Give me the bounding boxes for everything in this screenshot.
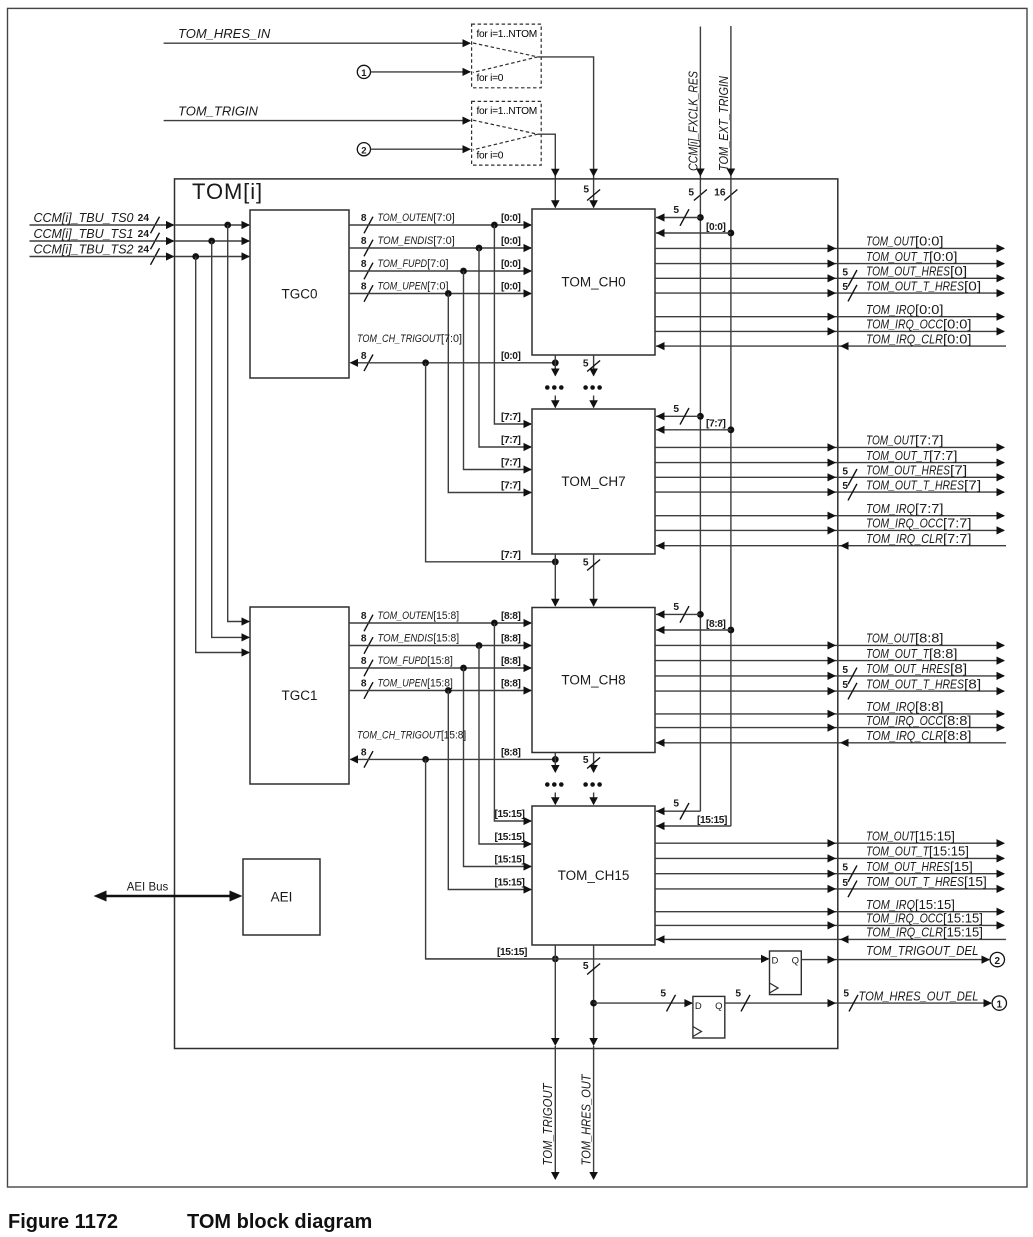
svg-text:5: 5 (583, 557, 589, 568)
wire EXT_TRIGIN feed [15:15] (656, 815, 731, 830)
svg-text:5: 5 (842, 267, 848, 278)
signal TOM_CH_TRIGOUT[7:0] (350, 333, 559, 371)
mux for i=0 / i=1..NTOM (TOM_HRES_IN) (472, 24, 542, 88)
svg-text:5: 5 (673, 799, 679, 810)
signal TOM_OUTEN[15:8] (349, 610, 532, 631)
svg-text:D: D (695, 1001, 702, 1012)
svg-text:TGC1: TGC1 (281, 688, 317, 703)
svg-text:D: D (772, 956, 779, 967)
svg-text:CCM[i]_TBU_TS1: CCM[i]_TBU_TS1 (33, 227, 133, 241)
node continuation dots CH0/CH7 (545, 385, 602, 390)
svg-text:5: 5 (842, 466, 848, 477)
svg-text:[0:0]: [0:0] (706, 222, 726, 233)
wire CCM[i]_TBU_TS0 branch to TGC1 (228, 225, 250, 626)
svg-text:[7:7]: [7:7] (501, 435, 521, 446)
svg-text:[7:7]: [7:7] (501, 481, 521, 492)
wire EXT_TRIGIN feed [0:0] (656, 222, 734, 237)
svg-text:TOM_CH8: TOM_CH8 (561, 673, 625, 688)
svg-text:[8:8]: [8:8] (501, 634, 521, 645)
svg-text:TOM_IRQ_OCC[7:7]: TOM_IRQ_OCC[7:7] (866, 516, 972, 531)
wire EXT_TRIGIN trunk inside TOM[i] (730, 176, 732, 826)
svg-text:TOM[i]: TOM[i] (192, 179, 263, 204)
svg-text:TOM_IRQ_CLR[0:0]: TOM_IRQ_CLR[0:0] (866, 331, 972, 346)
wire TOM_OUTEN[15:8] branch down (494, 623, 532, 825)
wire trigout chain CH0 to CH7 (551, 355, 600, 408)
svg-text:[7:7]: [7:7] (706, 419, 726, 430)
wire mux1 output to TOM_CH0 (x=593.6) (538, 57, 600, 208)
signal TOM_OUT[0:0] (655, 234, 1005, 253)
flip-flop FF2 (TOM_HRES_OUT_DEL) (590, 989, 725, 1038)
block TOM_CH7 (532, 409, 655, 554)
wire TOM_TRIGOUT output (x=555.3) (551, 945, 560, 1180)
signal TOM_OUT_T_HRES[8] (655, 676, 1005, 699)
wire trigout chain CH8 to CH15 (551, 753, 600, 806)
signal CCM[i]_TBU_TS1 (30, 227, 251, 250)
svg-text:5: 5 (583, 358, 589, 369)
svg-text:TOM_TRIGOUT_DEL: TOM_TRIGOUT_DEL (866, 943, 979, 958)
signal TOM_OUT_T[8:8] (655, 646, 1005, 665)
svg-text:[8:8]: [8:8] (501, 611, 521, 622)
node 1 (circle) (357, 65, 370, 79)
node continuation dots CH8/CH15 (545, 782, 602, 787)
svg-text:TOM block diagram: TOM block diagram (187, 1211, 372, 1233)
svg-text:TGC0: TGC0 (281, 287, 317, 302)
svg-text:CCM[i]_TBU_TS2: CCM[i]_TBU_TS2 (33, 242, 133, 256)
svg-text:TOM_FUPD[15:8]: TOM_FUPD[15:8] (378, 655, 453, 667)
svg-text:8: 8 (361, 236, 367, 247)
svg-text:5: 5 (673, 602, 679, 613)
svg-text:8: 8 (361, 351, 367, 362)
wire FXCLK trunk inside TOM[i] (699, 176, 701, 811)
signal TOM_OUT_T_HRES[7] (655, 477, 1005, 500)
wire circle1 to mux (371, 68, 472, 76)
signal TOM_UPEN[7:0] (349, 281, 532, 302)
flip-flop FF1 (TOM_TRIGOUT_DEL) (555, 951, 801, 995)
block TOM_CH8 (532, 608, 655, 753)
signal TOM_OUT_HRES[8] (655, 661, 1005, 684)
caption (8, 1211, 372, 1233)
block TOM_CH0 (532, 209, 655, 355)
svg-text:5: 5 (842, 863, 848, 874)
svg-text:5: 5 (842, 282, 848, 293)
svg-text:2: 2 (995, 956, 1001, 967)
signal TOM_ENDIS[15:8] (349, 633, 532, 654)
svg-text:TOM_HRES_IN: TOM_HRES_IN (178, 26, 271, 41)
wire FXCLK_RES feed [7:7] (656, 404, 704, 425)
svg-text:TOM_IRQ_CLR[8:8]: TOM_IRQ_CLR[8:8] (866, 728, 972, 743)
svg-text:8: 8 (361, 634, 367, 645)
svg-text:5: 5 (583, 961, 589, 972)
svg-text:AEI Bus: AEI Bus (127, 882, 169, 894)
wire TOM_ENDIS[15:8] branch down (479, 646, 532, 849)
signal TOM_IRQ_OCC[15:15] (655, 911, 1005, 930)
signal TOM_ENDIS[7:0] (349, 235, 532, 256)
wire TOM_UPEN[7:0] branch down (448, 294, 532, 497)
wire trigout chain CH7 to CH8 (551, 554, 600, 607)
svg-text:TOM_CH0: TOM_CH0 (561, 275, 625, 290)
svg-text:5: 5 (842, 665, 848, 676)
mux for i=0 / i=1..NTOM (TOM_TRIGIN) (472, 101, 542, 165)
svg-text:5: 5 (673, 404, 679, 415)
svg-text:TOM_OUT_T[0:0]: TOM_OUT_T[0:0] (866, 249, 958, 264)
svg-text:5: 5 (660, 989, 666, 1000)
signal TOM_OUT[8:8] (655, 631, 1005, 650)
signal TOM_IRQ[15:15] (655, 897, 1005, 916)
svg-text:TOM_IRQ[7:7]: TOM_IRQ[7:7] (866, 501, 944, 516)
signal CCM[i]_FXCLK_RES (vertical) (687, 27, 707, 201)
svg-text:TOM_IRQ_OCC[8:8]: TOM_IRQ_OCC[8:8] (866, 713, 972, 728)
svg-text:Q: Q (715, 1001, 722, 1012)
svg-text:[0:0]: [0:0] (501, 282, 521, 293)
signal TOM_OUT_T[0:0] (655, 249, 1005, 268)
svg-text:TOM_TRIGIN: TOM_TRIGIN (178, 103, 259, 118)
svg-text:for i=1..NTOM: for i=1..NTOM (477, 106, 537, 117)
svg-text:[15:15]: [15:15] (697, 815, 727, 826)
svg-text:TOM_TRIGOUT: TOM_TRIGOUT (540, 1083, 555, 1166)
svg-text:2: 2 (361, 146, 366, 157)
svg-text:AEI: AEI (271, 890, 293, 905)
signal TOM_OUT_T_HRES[0] (655, 278, 1005, 301)
signal TOM_OUT_T[15:15] (655, 844, 1005, 863)
svg-text:8: 8 (361, 747, 367, 758)
wire mux2 output to TOM_CH0 (x=555.3) (538, 134, 560, 208)
signal TOM_IRQ_CLR[15:15] (656, 925, 1006, 944)
signal TOM_IRQ_CLR[7:7] (656, 531, 1006, 550)
svg-text:[7:7]: [7:7] (501, 458, 521, 469)
svg-text:TOM_IRQ_OCC[15:15]: TOM_IRQ_OCC[15:15] (866, 911, 983, 926)
svg-text:8: 8 (361, 611, 367, 622)
signal TOM_IRQ_OCC[8:8] (655, 713, 1005, 732)
signal TOM_OUT_HRES[0] (655, 264, 1005, 287)
signal TOM_HRES_OUT_DEL (725, 988, 1007, 1011)
signal TOM_IRQ_CLR[8:8] (656, 728, 1006, 747)
signal TOM_TRIGIN (164, 103, 471, 124)
svg-text:5: 5 (843, 989, 849, 1000)
svg-text:TOM_OUT[0:0]: TOM_OUT[0:0] (866, 234, 944, 249)
signal TOM_OUT_T[7:7] (655, 448, 1005, 467)
svg-text:5: 5 (583, 184, 589, 195)
svg-text:TOM_OUT_HRES[7]: TOM_OUT_HRES[7] (866, 463, 967, 478)
svg-text:Figure 1172: Figure 1172 (8, 1211, 118, 1233)
svg-text:5: 5 (842, 878, 848, 889)
wire FXCLK_RES feed [8:8] (656, 602, 704, 623)
signal TOM_UPEN[15:8] (349, 678, 532, 699)
wire CCM[i]_TBU_TS2 branch to TGC1 (196, 257, 250, 657)
svg-text:TOM_OUT[7:7]: TOM_OUT[7:7] (866, 433, 944, 448)
svg-text:[15:15]: [15:15] (494, 832, 524, 843)
svg-text:16: 16 (714, 188, 726, 199)
svg-text:[8:8]: [8:8] (706, 619, 726, 630)
svg-text:5: 5 (583, 755, 589, 766)
svg-text:[0:0]: [0:0] (501, 259, 521, 270)
wire TOM_UPEN[15:8] branch down (448, 691, 532, 894)
svg-text:[8:8]: [8:8] (501, 679, 521, 690)
block AEI (243, 859, 320, 935)
svg-text:CCM[i]_TBU_TS0: CCM[i]_TBU_TS0 (33, 211, 133, 225)
svg-text:for i=1..NTOM: for i=1..NTOM (477, 29, 537, 40)
svg-text:CCM[i]_FXCLK_RES: CCM[i]_FXCLK_RES (687, 70, 701, 171)
svg-text:TOM_OUT_T[7:7]: TOM_OUT_T[7:7] (866, 448, 958, 463)
svg-text:24: 24 (138, 244, 150, 255)
svg-text:TOM_HRES_OUT_DEL: TOM_HRES_OUT_DEL (859, 988, 979, 1003)
signal TOM_OUT_T_HRES[15] (655, 874, 1005, 897)
svg-text:1: 1 (361, 68, 367, 79)
svg-text:5: 5 (842, 680, 848, 691)
svg-text:[8:8]: [8:8] (501, 656, 521, 667)
signal TOM_OUT_HRES[7] (655, 463, 1005, 486)
signal TOM_OUT[15:15] (655, 828, 1005, 847)
svg-text:5: 5 (688, 188, 694, 199)
svg-text:TOM_CH_TRIGOUT[7:0]: TOM_CH_TRIGOUT[7:0] (357, 333, 462, 345)
svg-text:[15:15]: [15:15] (497, 947, 527, 958)
module TOM[i] (175, 179, 838, 1049)
signal TOM_IRQ_OCC[7:7] (655, 516, 1005, 535)
svg-text:[8:8]: [8:8] (501, 747, 521, 758)
svg-text:TOM_CH7: TOM_CH7 (561, 474, 625, 489)
svg-text:TOM_ENDIS[15:8]: TOM_ENDIS[15:8] (378, 633, 460, 645)
svg-text:TOM_IRQ_CLR[15:15]: TOM_IRQ_CLR[15:15] (866, 925, 983, 940)
svg-text:TOM_OUT_T[8:8]: TOM_OUT_T[8:8] (866, 646, 958, 661)
svg-text:TOM_OUT_HRES[0]: TOM_OUT_HRES[0] (866, 264, 967, 279)
signal TOM_IRQ_OCC[0:0] (655, 317, 1005, 336)
svg-text:[0:0]: [0:0] (501, 236, 521, 247)
svg-text:TOM_OUT_T_HRES[15]: TOM_OUT_T_HRES[15] (866, 874, 987, 889)
wire EXT_TRIGIN feed [7:7] (656, 419, 734, 434)
signal TOM_FUPD[15:8] (349, 655, 532, 676)
svg-text:TOM_OUT[15:15]: TOM_OUT[15:15] (866, 828, 955, 843)
svg-text:[15:15]: [15:15] (494, 809, 524, 820)
block TGC1 (250, 607, 349, 784)
signal TOM_OUT[7:7] (655, 433, 1005, 452)
block TGC0 (250, 210, 349, 378)
signal TOM_TRIGOUT_DEL (801, 943, 1004, 967)
svg-text:TOM_OUTEN[7:0]: TOM_OUTEN[7:0] (378, 212, 455, 224)
svg-text:8: 8 (361, 679, 367, 690)
svg-text:TOM_OUT_T_HRES[8]: TOM_OUT_T_HRES[8] (866, 676, 981, 691)
wire trigout row to FF1 (426, 958, 556, 960)
svg-text:TOM_OUT_T_HRES[0]: TOM_OUT_T_HRES[0] (866, 278, 981, 293)
wire TOM_FUPD[7:0] branch down (464, 271, 533, 474)
svg-text:TOM_FUPD[7:0]: TOM_FUPD[7:0] (378, 258, 449, 270)
svg-text:Q: Q (792, 956, 799, 967)
wire EXT_TRIGIN feed [8:8] (656, 619, 734, 634)
svg-text:8: 8 (361, 656, 367, 667)
signal TOM_EXT_TRIGIN (vertical) (714, 26, 737, 201)
signal AEI Bus (94, 882, 243, 902)
wire TOM_FUPD[15:8] branch down (464, 668, 533, 871)
svg-text:TOM_CH_TRIGOUT[15:8]: TOM_CH_TRIGOUT[15:8] (357, 730, 466, 742)
svg-text:8: 8 (361, 259, 367, 270)
wire TGC0 trigout vertical + CH7 row (426, 363, 559, 565)
svg-text:TOM_UPEN[15:8]: TOM_UPEN[15:8] (378, 678, 453, 690)
signal CCM[i]_TBU_TS0 (30, 211, 251, 234)
svg-text:TOM_OUT_T[15:15]: TOM_OUT_T[15:15] (866, 844, 969, 859)
svg-text:1: 1 (997, 999, 1003, 1010)
wire TGC1 trigout vertical + CH15 row (426, 759, 559, 962)
svg-text:8: 8 (361, 213, 367, 224)
wire TOM_ENDIS[7:0] branch down (479, 248, 532, 451)
svg-text:5: 5 (673, 205, 679, 216)
svg-text:TOM_UPEN[7:0]: TOM_UPEN[7:0] (378, 281, 449, 293)
block TOM_CH15 (532, 806, 655, 945)
signal TOM_IRQ[7:7] (655, 501, 1005, 520)
svg-text:TOM_EXT_TRIGIN: TOM_EXT_TRIGIN (717, 75, 731, 171)
signal TOM_IRQ[8:8] (655, 699, 1005, 718)
signal TOM_HRES_IN (164, 26, 471, 47)
wire TOM_HRES_OUT output (x=593.6) (583, 945, 600, 1180)
svg-text:8: 8 (361, 282, 367, 293)
svg-text:24: 24 (138, 213, 150, 224)
svg-text:[0:0]: [0:0] (501, 351, 521, 362)
svg-text:TOM_HRES_OUT: TOM_HRES_OUT (578, 1074, 593, 1166)
svg-text:TOM_OUT_HRES[15]: TOM_OUT_HRES[15] (866, 859, 973, 874)
svg-text:[15:15]: [15:15] (494, 855, 524, 866)
svg-text:TOM_CH15: TOM_CH15 (558, 868, 630, 883)
signal TOM_CH_TRIGOUT[15:8] (350, 730, 559, 768)
svg-text:for i=0: for i=0 (477, 151, 504, 162)
wire TOM_OUTEN[7:0] branch down (494, 225, 532, 428)
signal TOM_IRQ_CLR[0:0] (656, 331, 1006, 350)
svg-text:TOM_OUT[8:8]: TOM_OUT[8:8] (866, 631, 944, 646)
svg-text:TOM_IRQ_CLR[7:7]: TOM_IRQ_CLR[7:7] (866, 531, 972, 546)
svg-text:5: 5 (735, 989, 741, 1000)
svg-text:TOM_IRQ[0:0]: TOM_IRQ[0:0] (866, 302, 944, 317)
svg-text:TOM_OUTEN[15:8]: TOM_OUTEN[15:8] (378, 610, 460, 622)
svg-text:TOM_OUT_HRES[8]: TOM_OUT_HRES[8] (866, 661, 967, 676)
signal TOM_FUPD[7:0] (349, 258, 532, 279)
svg-text:TOM_OUT_T_HRES[7]: TOM_OUT_T_HRES[7] (866, 477, 981, 492)
wire circle2 to mux (371, 145, 472, 153)
svg-text:[7:7]: [7:7] (501, 412, 521, 423)
svg-text:[0:0]: [0:0] (501, 213, 521, 224)
svg-text:5: 5 (842, 481, 848, 492)
svg-text:TOM_IRQ_OCC[0:0]: TOM_IRQ_OCC[0:0] (866, 317, 972, 332)
signal CCM[i]_TBU_TS2 (30, 242, 251, 264)
svg-text:for i=0: for i=0 (477, 73, 504, 84)
svg-text:[15:15]: [15:15] (494, 878, 524, 889)
wire CCM[i]_TBU_TS1 branch to TGC1 (212, 241, 250, 642)
wire FXCLK_RES feed [15:15] (656, 799, 700, 820)
node 2 (circle) (357, 143, 370, 157)
signal TOM_IRQ[0:0] (655, 302, 1005, 321)
svg-text:TOM_ENDIS[7:0]: TOM_ENDIS[7:0] (378, 235, 455, 247)
signal TOM_OUT_HRES[15] (655, 859, 1005, 882)
svg-text:[7:7]: [7:7] (501, 550, 521, 561)
wire FXCLK_RES feed [0:0] (656, 205, 704, 226)
svg-text:24: 24 (138, 229, 150, 240)
signal TOM_OUTEN[7:0] (349, 212, 532, 233)
